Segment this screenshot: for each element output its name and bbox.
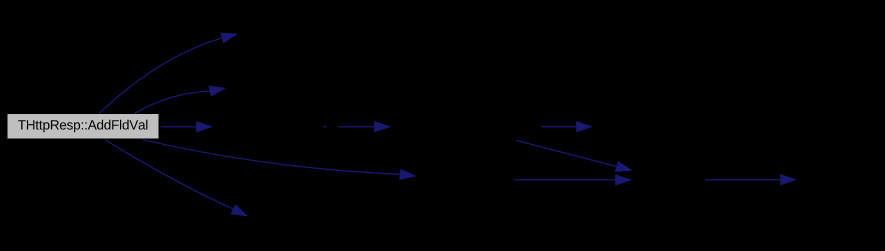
- edge 8: [516, 140, 616, 166]
- arrowhead of edge 8: [616, 162, 632, 172]
- edge 2: [135, 91, 210, 113]
- arrowhead of edge 7: [577, 122, 592, 132]
- edge 10: [705, 179, 781, 181]
- node box THttpResp::AddFldVal (root node, gray fill, black border): [7, 114, 159, 140]
- edge 4: [143, 140, 400, 175]
- edge 5: [106, 140, 234, 209]
- arrowhead of edge 10: [781, 175, 796, 185]
- edge 7: [541, 126, 577, 128]
- arrowhead of edge 3: [197, 122, 212, 132]
- edge 3: [161, 126, 197, 128]
- arrowhead of edge 4: [400, 170, 415, 180]
- arrowhead of edge 2: [209, 86, 225, 96]
- node label "THttpResp::AddFldVal" (black, as outlines): [18, 120, 147, 133]
- edge 6: [338, 126, 375, 128]
- arrowhead of edge 1 (root to top callee): [221, 33, 237, 43]
- arrowhead of edge 5: [231, 205, 247, 216]
- arrowhead of edge 9: [616, 175, 631, 185]
- edge 1 (root to top callee): [99, 38, 222, 113]
- edge 9: [515, 179, 616, 181]
- arrowhead of edge 6: [375, 122, 390, 132]
- edge 6 stub: [324, 126, 327, 128]
